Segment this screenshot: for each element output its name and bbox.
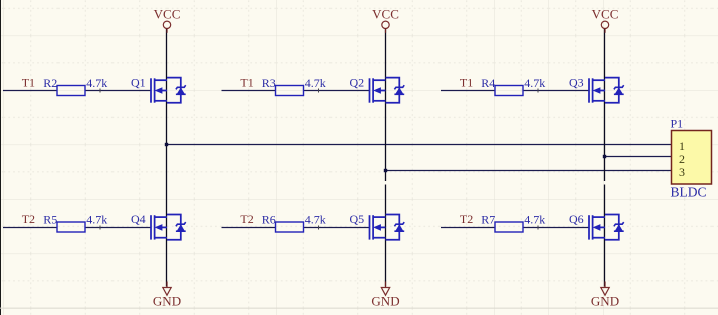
svg-text:4.7k: 4.7k: [86, 212, 107, 226]
svg-text:R5: R5: [43, 213, 57, 227]
svg-text:4.7k: 4.7k: [305, 76, 326, 90]
svg-text:T2: T2: [22, 212, 35, 226]
svg-text:BLDC: BLDC: [671, 185, 707, 200]
svg-text:2: 2: [679, 152, 685, 166]
svg-text:T2: T2: [240, 212, 253, 226]
svg-text:4.7k: 4.7k: [524, 212, 545, 226]
svg-text:P1: P1: [671, 117, 684, 131]
svg-text:Q6: Q6: [569, 212, 584, 226]
svg-text:4.7k: 4.7k: [305, 212, 326, 226]
svg-text:Q3: Q3: [569, 76, 584, 90]
svg-text:T2: T2: [460, 212, 473, 226]
svg-text:4.7k: 4.7k: [86, 76, 107, 90]
svg-text:3: 3: [679, 165, 685, 179]
svg-text:R2: R2: [43, 76, 57, 90]
svg-text:R7: R7: [481, 213, 495, 227]
svg-text:R6: R6: [262, 213, 276, 227]
svg-text:T1: T1: [460, 76, 473, 90]
svg-text:Q5: Q5: [350, 212, 365, 226]
svg-text:T1: T1: [22, 76, 35, 90]
svg-text:Q1: Q1: [131, 76, 146, 90]
svg-text:4.7k: 4.7k: [524, 76, 545, 90]
svg-text:1: 1: [679, 139, 685, 153]
svg-text:Q4: Q4: [131, 212, 146, 226]
svg-text:R3: R3: [262, 76, 276, 90]
svg-text:Q2: Q2: [350, 76, 365, 90]
svg-text:T1: T1: [240, 76, 253, 90]
svg-text:R4: R4: [481, 76, 495, 90]
